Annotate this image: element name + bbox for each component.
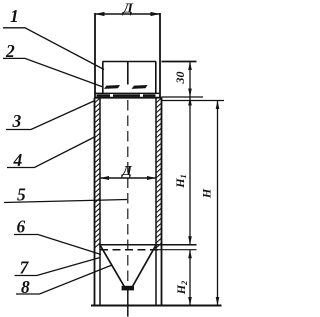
extension line at column top (H)	[162, 100, 225, 102]
leader 2	[3, 58, 103, 87]
flange dark segment b	[113, 94, 140, 97]
dimension H2	[188, 250, 192, 306]
svg-text:Д: Д	[120, 164, 132, 179]
leader 8	[16, 265, 112, 294]
left wall hatching (item 4)	[95, 98, 101, 248]
louver slot left (item 2)	[104, 85, 120, 89]
funnel hidden line (dashed)	[100, 249, 158, 251]
leader 3	[6, 101, 95, 130]
svg-text:Д: Д	[121, 2, 133, 17]
column right inner wall	[155, 98, 157, 306]
leader 4	[7, 137, 96, 168]
funnel top line	[99, 244, 197, 246]
cone left slope (item 7)	[100, 245, 124, 287]
paper background	[0, 0, 228, 317]
centre line	[127, 100, 129, 288]
bottom line	[91, 305, 222, 307]
svg-text:1: 1	[10, 6, 19, 26]
dimension H	[216, 101, 220, 306]
shell left wall (upper single line)	[94, 13, 96, 98]
extension line at louver top level	[162, 61, 197, 63]
shell right wall (upper single line)	[159, 13, 161, 98]
flange line (item 3)	[96, 92, 161, 94]
svg-text:H: H	[200, 188, 214, 199]
column left outer wall	[94, 98, 96, 306]
dimension 30	[188, 62, 192, 98]
cone right slope	[133, 245, 157, 287]
leader 1	[3, 28, 104, 70]
svg-text:7: 7	[20, 258, 30, 278]
leader 6	[14, 235, 101, 255]
right wall hatching	[156, 98, 162, 248]
dimension line D (top width)	[95, 12, 160, 16]
svg-text:3: 3	[12, 111, 22, 131]
svg-text:6: 6	[17, 217, 26, 237]
outlet block (item 8)	[122, 286, 134, 291]
column right outer wall	[161, 98, 163, 306]
flange dark segment c	[143, 94, 156, 97]
flange dark segment a	[97, 94, 111, 97]
inner box top (louver chamber, item 1)	[103, 61, 157, 63]
column top line	[95, 97, 162, 99]
svg-text:30: 30	[173, 72, 187, 85]
dimension line D (inner diameter)	[100, 176, 156, 180]
column left inner wall	[99, 98, 101, 306]
leader 7	[15, 258, 101, 276]
inner box right edge	[155, 62, 157, 94]
louver slot right	[132, 85, 148, 89]
inner box centre divider	[127, 62, 129, 85]
dimension H1	[188, 97, 192, 245]
leader 5	[4, 200, 127, 203]
extension line at column top (H1)	[162, 96, 204, 98]
inner box left edge	[102, 62, 104, 94]
extension line to H2	[158, 249, 197, 251]
centre line lower solid part	[127, 288, 129, 317]
